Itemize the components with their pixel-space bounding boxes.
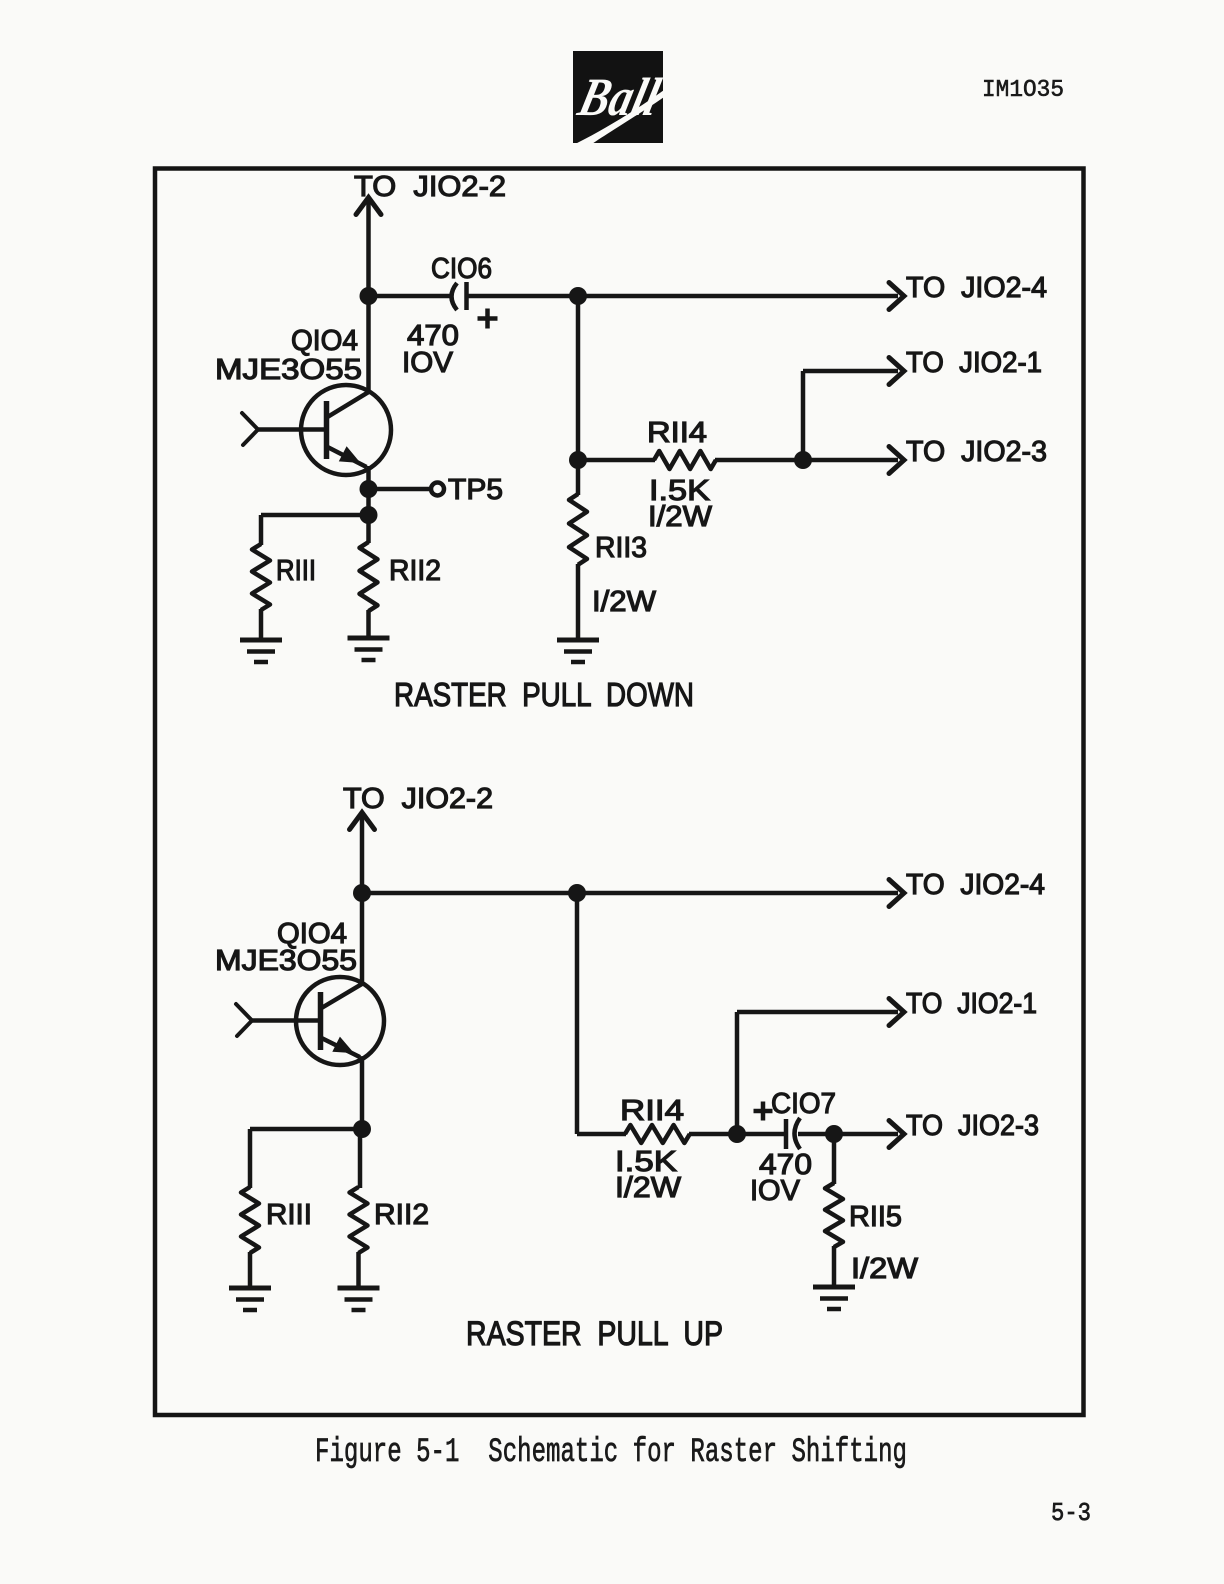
wire: junction down to R112 (pull-up) bbox=[358, 1129, 363, 1188]
node: C107 / R115 junction bbox=[825, 1125, 843, 1143]
svg-text:TO JIO2-2: TO JIO2-2 bbox=[343, 783, 493, 815]
node: R113 / R114 junction bbox=[569, 451, 587, 469]
polarity + of C107 bbox=[754, 1109, 773, 1114]
capacitor C106 (straight plate) bbox=[464, 282, 469, 310]
wire: collector net up to J102-2 connector (pull-down) bbox=[366, 200, 371, 391]
wire: C106 to J102-4 connector (pull-down) bbox=[468, 294, 898, 299]
capacitor C106 (curved plate) bbox=[452, 283, 458, 310]
connector arrow to J102-1 (pull-up) bbox=[889, 999, 904, 1026]
wire: junction to C106 left plate bbox=[369, 294, 451, 299]
ground below R113 bbox=[557, 640, 599, 662]
svg-text:RII5: RII5 bbox=[849, 1201, 902, 1233]
svg-text:Figure 5-1 Schematic for Rast: Figure 5-1 Schematic for Raster Shifting bbox=[315, 1434, 907, 1472]
svg-text:I/2W: I/2W bbox=[592, 586, 657, 618]
wire: junction down to R112 (pull-down) bbox=[366, 515, 371, 543]
connector arrow to J102-3 (pull-down) bbox=[889, 447, 904, 474]
svg-text:RII3: RII3 bbox=[595, 532, 647, 564]
transistor Q104 (pull-down) bbox=[242, 385, 391, 475]
polarity + of C106 bbox=[478, 316, 498, 321]
svg-text:TO JIO2-3: TO JIO2-3 bbox=[906, 1110, 1039, 1142]
resistor R114 (pull-up) bbox=[625, 1125, 690, 1143]
svg-text:TO JIO2-1: TO JIO2-1 bbox=[906, 347, 1042, 379]
svg-text:TO JIO2-1: TO JIO2-1 bbox=[906, 988, 1037, 1020]
wire: node down to R115 bbox=[832, 1134, 837, 1184]
resistor R112 (pull-up) bbox=[350, 1187, 368, 1253]
svg-text:RII4: RII4 bbox=[620, 1095, 684, 1127]
wire: junction left toward R111 bbox=[261, 513, 369, 518]
wire: R113 to ground bbox=[576, 564, 581, 640]
test point TP5 terminal bbox=[431, 483, 444, 496]
wire: branch up toward J102-1 (pull-down) bbox=[801, 371, 806, 460]
svg-text:RII4: RII4 bbox=[647, 417, 707, 449]
wire: R112 to ground (pull-up) bbox=[356, 1252, 361, 1288]
svg-text:RIII: RIII bbox=[266, 1199, 312, 1231]
node: R114 / C107 / J102-1 junction (pull-up) bbox=[728, 1125, 746, 1143]
connector arrow to J102-4 (pull-down) bbox=[889, 283, 904, 310]
wire: to R114 left end (pull-up) bbox=[577, 1132, 626, 1137]
wire: R112 to ground (pull-down) bbox=[366, 610, 371, 638]
wire: branch to J102-1 connector (pull-up) bbox=[737, 1010, 898, 1015]
svg-text:TO JIO2-4: TO JIO2-4 bbox=[906, 869, 1045, 901]
svg-text:I/2W: I/2W bbox=[851, 1253, 919, 1285]
resistor R111 (pull-down) bbox=[252, 544, 270, 610]
connector arrow to J102-3 (pull-up) bbox=[889, 1121, 904, 1148]
svg-text:CIO6: CIO6 bbox=[431, 253, 492, 285]
node: rail / R114 branch junction (pull-up) bbox=[568, 884, 586, 902]
svg-text:I/2W: I/2W bbox=[615, 1172, 682, 1204]
resistor R114 (pull-down) bbox=[654, 451, 716, 469]
node: emitter / R111 R112 junction bbox=[360, 506, 378, 524]
node: collector / C106 junction bbox=[360, 287, 378, 305]
ground below R111 (pull-down) bbox=[240, 640, 282, 662]
node: emitter / R111 R112 junction (pull-up) bbox=[353, 1120, 371, 1138]
connector arrow to J102-2 (pull-up) bbox=[350, 813, 375, 830]
wire: down to R111 (pull-down) bbox=[259, 515, 264, 545]
svg-text:RASTER PULL UP: RASTER PULL UP bbox=[466, 1315, 723, 1353]
resistor R111 (pull-up) bbox=[241, 1187, 259, 1253]
wire: rail to J102-4 connector (pull-up) bbox=[362, 891, 898, 896]
wire: rail down to R113 bbox=[576, 460, 581, 495]
transistor Q104 (pull-up) bbox=[236, 977, 384, 1065]
svg-text:TO JIO2-4: TO JIO2-4 bbox=[906, 272, 1047, 304]
schematic enclosure box bbox=[155, 169, 1084, 1416]
wire: R111 to ground (pull-down) bbox=[259, 609, 264, 640]
capacitor C107 (curved plate) bbox=[795, 1118, 801, 1149]
node: R114 / J102-1 branch junction bbox=[794, 451, 812, 469]
wire: down to R111 (pull-up) bbox=[248, 1129, 253, 1188]
svg-text:IOV: IOV bbox=[402, 347, 454, 379]
wire: R111 to ground (pull-up) bbox=[248, 1252, 253, 1288]
svg-text:RIII: RIII bbox=[276, 555, 316, 587]
svg-text:QIO4: QIO4 bbox=[291, 325, 358, 357]
connector arrow to J102-4 (pull-up) bbox=[889, 880, 904, 907]
svg-text:MJE3O55: MJE3O55 bbox=[215, 945, 357, 977]
resistor R115 bbox=[825, 1183, 843, 1247]
svg-text:IOV: IOV bbox=[750, 1175, 801, 1207]
svg-text:MJE3O55: MJE3O55 bbox=[215, 354, 362, 386]
wire: junction left toward R111 (pull-up) bbox=[250, 1127, 362, 1132]
svg-text:CIO7: CIO7 bbox=[771, 1088, 836, 1120]
resistor R113 bbox=[569, 494, 587, 565]
svg-text:RII2: RII2 bbox=[389, 555, 441, 587]
svg-text:I/2W: I/2W bbox=[648, 501, 713, 533]
wire: branch up toward J102-1 (pull-up) bbox=[735, 1012, 740, 1134]
wire: R114 to J102-3 connector (pull-down) bbox=[715, 458, 898, 463]
ground below R112 (pull-down) bbox=[348, 638, 390, 660]
node: emitter / TP5 junction bbox=[360, 480, 378, 498]
ground below R115 bbox=[813, 1287, 855, 1309]
wire: junction down to R114 rail bbox=[576, 296, 581, 460]
resistor R112 (pull-down) bbox=[360, 542, 378, 611]
svg-text:Ball: Ball bbox=[572, 67, 666, 127]
wire: R114 to C107 node (pull-up) bbox=[689, 1132, 737, 1137]
svg-text:TO JIO2-2: TO JIO2-2 bbox=[354, 171, 506, 203]
connector arrow to J102-1 (pull-down) bbox=[889, 358, 904, 385]
svg-text:5-3: 5-3 bbox=[1051, 1498, 1091, 1528]
svg-text:RASTER PULL DOWN: RASTER PULL DOWN bbox=[394, 676, 694, 713]
wire: junction to R114 bbox=[578, 458, 655, 463]
ground below R111 (pull-up) bbox=[229, 1288, 271, 1310]
capacitor C107 (straight plate) bbox=[784, 1119, 789, 1149]
svg-text:TP5: TP5 bbox=[448, 474, 503, 506]
wire: emitter down to TP5 node bbox=[366, 466, 371, 520]
svg-text:IM1O35: IM1O35 bbox=[982, 77, 1064, 104]
svg-text:RII2: RII2 bbox=[374, 1199, 429, 1231]
ground below R112 (pull-up) bbox=[338, 1288, 380, 1310]
wire: stub to test point TP5 bbox=[369, 487, 431, 492]
node: collector / J102-4 rail junction (pull-up) bbox=[353, 884, 371, 902]
wire: R115 to ground bbox=[832, 1246, 837, 1287]
wire: emitter down to R111/R112 junction (pull-up) bbox=[360, 1056, 365, 1129]
connector arrow to J102-2 (pull-down) bbox=[356, 198, 381, 215]
wire: branch down to R114 (pull-up) bbox=[575, 893, 580, 1134]
svg-text:TO JIO2-3: TO JIO2-3 bbox=[906, 436, 1047, 468]
wire: node to C107 left plate bbox=[737, 1132, 784, 1137]
wire: collector net up to J102-2 connector (pull-up) bbox=[360, 815, 365, 985]
node: C106 right / R113 top junction bbox=[569, 287, 587, 305]
wire: C107 to J102-3 connector (pull-up) bbox=[798, 1132, 898, 1137]
wire: branch to J102-1 connector (pull-down) bbox=[803, 369, 898, 374]
